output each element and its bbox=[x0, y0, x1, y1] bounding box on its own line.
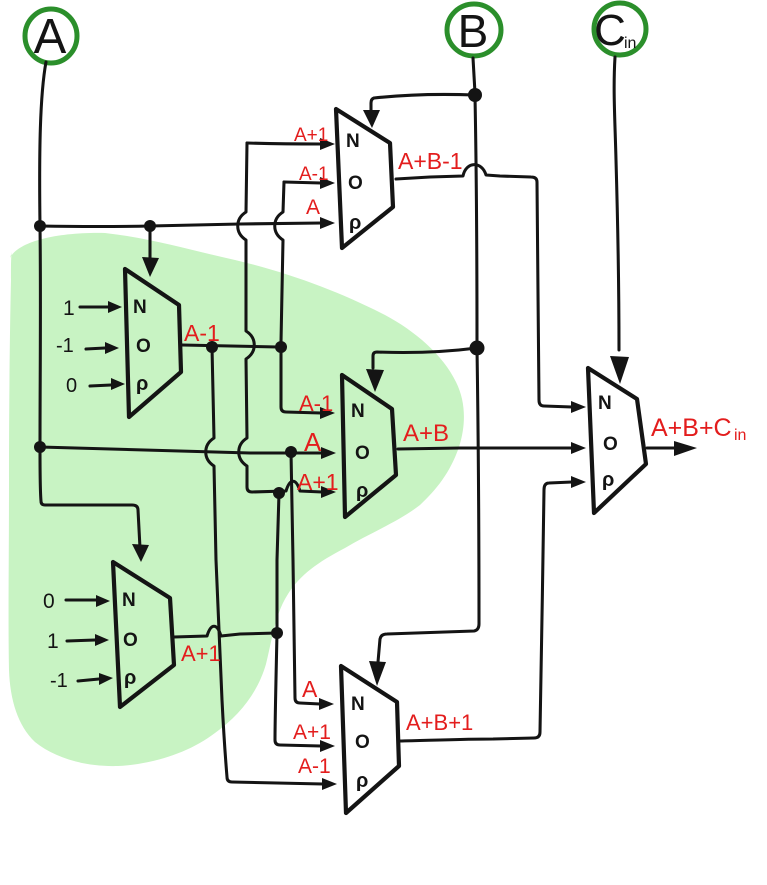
wire A+B output to mux M6 O input bbox=[398, 448, 572, 449]
svg-text:A: A bbox=[302, 676, 318, 702]
wire constant -1 to mux M1 O bbox=[86, 348, 105, 349]
svg-text:O: O bbox=[123, 630, 138, 651]
wire A vertical trunk bbox=[40, 62, 140, 548]
svg-text:O: O bbox=[603, 434, 618, 455]
node A select tap bbox=[144, 220, 156, 232]
svg-text:A-1: A-1 bbox=[299, 164, 329, 185]
svg-text:A-1: A-1 bbox=[298, 755, 331, 778]
wire constant -1 to mux M4 p bbox=[78, 679, 99, 681]
svg-text:A+B-1: A+B-1 bbox=[398, 148, 463, 174]
arrow A-1 into mux M2 O bbox=[320, 177, 335, 189]
node B1 bbox=[468, 88, 482, 102]
wire constant 1 to mux M1 N bbox=[80, 305, 109, 308]
wire A+B+1 output to mux M6 p input bbox=[399, 482, 572, 741]
arrow A+B into mux M6 O bbox=[571, 442, 586, 454]
svg-text:A-1: A-1 bbox=[299, 391, 333, 416]
arrow A+1 into mux M2 N bbox=[320, 138, 335, 150]
mux M1 (output A-1) body bbox=[125, 269, 181, 417]
node A-1 tap right bbox=[275, 341, 287, 353]
svg-text:ρ: ρ bbox=[602, 469, 614, 491]
highlight blob bbox=[9, 233, 464, 766]
svg-text:ρ: ρ bbox=[349, 212, 361, 234]
svg-text:N: N bbox=[133, 297, 147, 318]
arrow A-1 into mux M5 p bbox=[322, 778, 337, 790]
arrow A+1 into mux M5 O bbox=[320, 740, 335, 752]
node A row1 bbox=[34, 220, 46, 232]
node A-1 tap left bbox=[206, 341, 218, 353]
arrowhead select mux M2 bbox=[363, 110, 380, 128]
mux M3 (output A+B) body bbox=[342, 375, 396, 517]
svg-text:N: N bbox=[346, 131, 360, 152]
svg-text:-1: -1 bbox=[50, 670, 68, 692]
wire A+1 riser top to mux M2 N input bbox=[247, 143, 321, 144]
wire constant 0 to mux M1 p bbox=[90, 385, 111, 386]
svg-text:ρ: ρ bbox=[136, 373, 148, 395]
svg-text:ρ: ρ bbox=[356, 770, 368, 792]
svg-text:A+1: A+1 bbox=[297, 469, 339, 495]
wire A+1 riser from node to junction x277 bbox=[277, 493, 279, 633]
arrow A into mux M2 P bbox=[320, 217, 335, 229]
arrowhead select mux M3 bbox=[366, 369, 384, 392]
wire A+1 drop to mux M5 O input bbox=[275, 633, 321, 746]
wire A select drop to mux M1 bbox=[148, 226, 151, 258]
svg-text:A+1: A+1 bbox=[293, 721, 331, 744]
wire A+1 output of mux M4 with hop bbox=[174, 626, 277, 637]
svg-text:N: N bbox=[351, 694, 365, 715]
wire Cin to mux M6 select bbox=[614, 57, 619, 350]
node A+1 junction upper bbox=[273, 487, 285, 499]
wire B to mux M2 select bbox=[371, 94, 475, 112]
svg-text:ρ: ρ bbox=[124, 667, 136, 689]
svg-text:1: 1 bbox=[63, 297, 75, 320]
port B stem wire bbox=[473, 58, 475, 93]
svg-text:A+B: A+B bbox=[403, 420, 449, 447]
arrow into mux M4 O bbox=[95, 634, 109, 646]
arrow A+B-1 into mux M6 N bbox=[571, 401, 586, 413]
svg-text:B: B bbox=[458, 5, 489, 57]
svg-text:A+1: A+1 bbox=[181, 641, 221, 666]
mux M2 (output A+B-1) body bbox=[336, 109, 393, 248]
input port B bbox=[447, 4, 501, 57]
node A row2 bbox=[34, 441, 46, 453]
wire constant 1 to mux M4 O bbox=[67, 640, 95, 641]
svg-text:0: 0 bbox=[43, 590, 55, 613]
node B2 bbox=[470, 341, 485, 356]
mux M4 (output A+1) body bbox=[113, 562, 174, 707]
arrow A+1 into mux M3 p bbox=[321, 486, 336, 498]
wire A+1 riser to top, with crossover hops bbox=[238, 143, 322, 492]
arrow into mux M1 O bbox=[105, 342, 119, 354]
mux M6 (output A+B+Cin) body bbox=[588, 368, 646, 513]
arrow A-1 into mux M3 N bbox=[320, 407, 335, 419]
wire B to mux M3 select bbox=[373, 348, 477, 368]
wire B vertical to mux M5 select bbox=[378, 348, 479, 662]
arrow A+B+1 into mux M6 p bbox=[571, 476, 586, 488]
svg-text:O: O bbox=[348, 173, 363, 194]
svg-text:N: N bbox=[122, 590, 136, 611]
svg-text:A: A bbox=[304, 427, 322, 457]
arrowhead select mux M5 bbox=[369, 661, 386, 686]
arrow into mux M4 p bbox=[99, 673, 113, 685]
wire A-1 output of mux M1 bbox=[182, 345, 278, 347]
wire A-1 dropper x216 down to mux M5 p bbox=[206, 347, 323, 784]
arrow into mux M4 N bbox=[96, 595, 110, 607]
svg-text:O: O bbox=[136, 336, 151, 357]
svg-text:O: O bbox=[355, 443, 370, 464]
svg-text:C: C bbox=[594, 6, 626, 55]
svg-text:in: in bbox=[734, 427, 746, 444]
svg-text:ρ: ρ bbox=[356, 480, 368, 502]
arrowhead select mux M6 bbox=[610, 356, 629, 384]
svg-text:N: N bbox=[351, 401, 365, 422]
wire A trunk arrowhead into mux M4 select bbox=[132, 544, 149, 562]
arrow into mux M1 p bbox=[111, 378, 125, 390]
svg-text:A: A bbox=[306, 196, 320, 219]
wire B vertical to node B2 bbox=[475, 96, 477, 348]
svg-text:A: A bbox=[34, 10, 67, 64]
svg-text:1: 1 bbox=[47, 630, 59, 653]
mux M5 (output A+B+1) body bbox=[341, 666, 399, 813]
input port Cin bbox=[594, 3, 646, 55]
wire A to mux M2 P input bbox=[40, 223, 322, 227]
wire A drop x291 to mux M5 N input bbox=[291, 452, 320, 704]
arrow into mux M1 N bbox=[108, 301, 122, 313]
wire constant 0 to mux M4 N bbox=[66, 598, 97, 601]
svg-text:O: O bbox=[355, 732, 370, 753]
svg-text:-1: -1 bbox=[56, 335, 74, 357]
svg-text:A+1: A+1 bbox=[294, 125, 328, 146]
wire A row to mux M3 O input bbox=[40, 447, 322, 453]
wire A-1 to mux M2 O input bbox=[284, 182, 321, 183]
svg-text:0: 0 bbox=[66, 375, 77, 397]
wire A+B-1 output to mux M6 N input bbox=[396, 165, 572, 407]
wire A+B+Cin output bbox=[647, 446, 675, 449]
node A tap on row2 bbox=[285, 446, 297, 458]
arrowhead select mux M1 bbox=[142, 257, 159, 277]
svg-text:A+B+C: A+B+C bbox=[651, 414, 732, 442]
node A+1 junction lower bbox=[271, 627, 283, 639]
svg-text:A+B+1: A+B+1 bbox=[406, 710, 473, 735]
wire A-1 riser x284 with hop, to mux M2 O and mux M3 N bbox=[275, 182, 321, 413]
input port A bbox=[25, 9, 77, 64]
arrow A into mux M3 O bbox=[321, 447, 336, 459]
svg-text:N: N bbox=[598, 393, 612, 414]
svg-text:in: in bbox=[624, 35, 636, 52]
arrow A into mux M5 N bbox=[319, 698, 334, 710]
arrow A+B+Cin output bbox=[674, 441, 697, 456]
